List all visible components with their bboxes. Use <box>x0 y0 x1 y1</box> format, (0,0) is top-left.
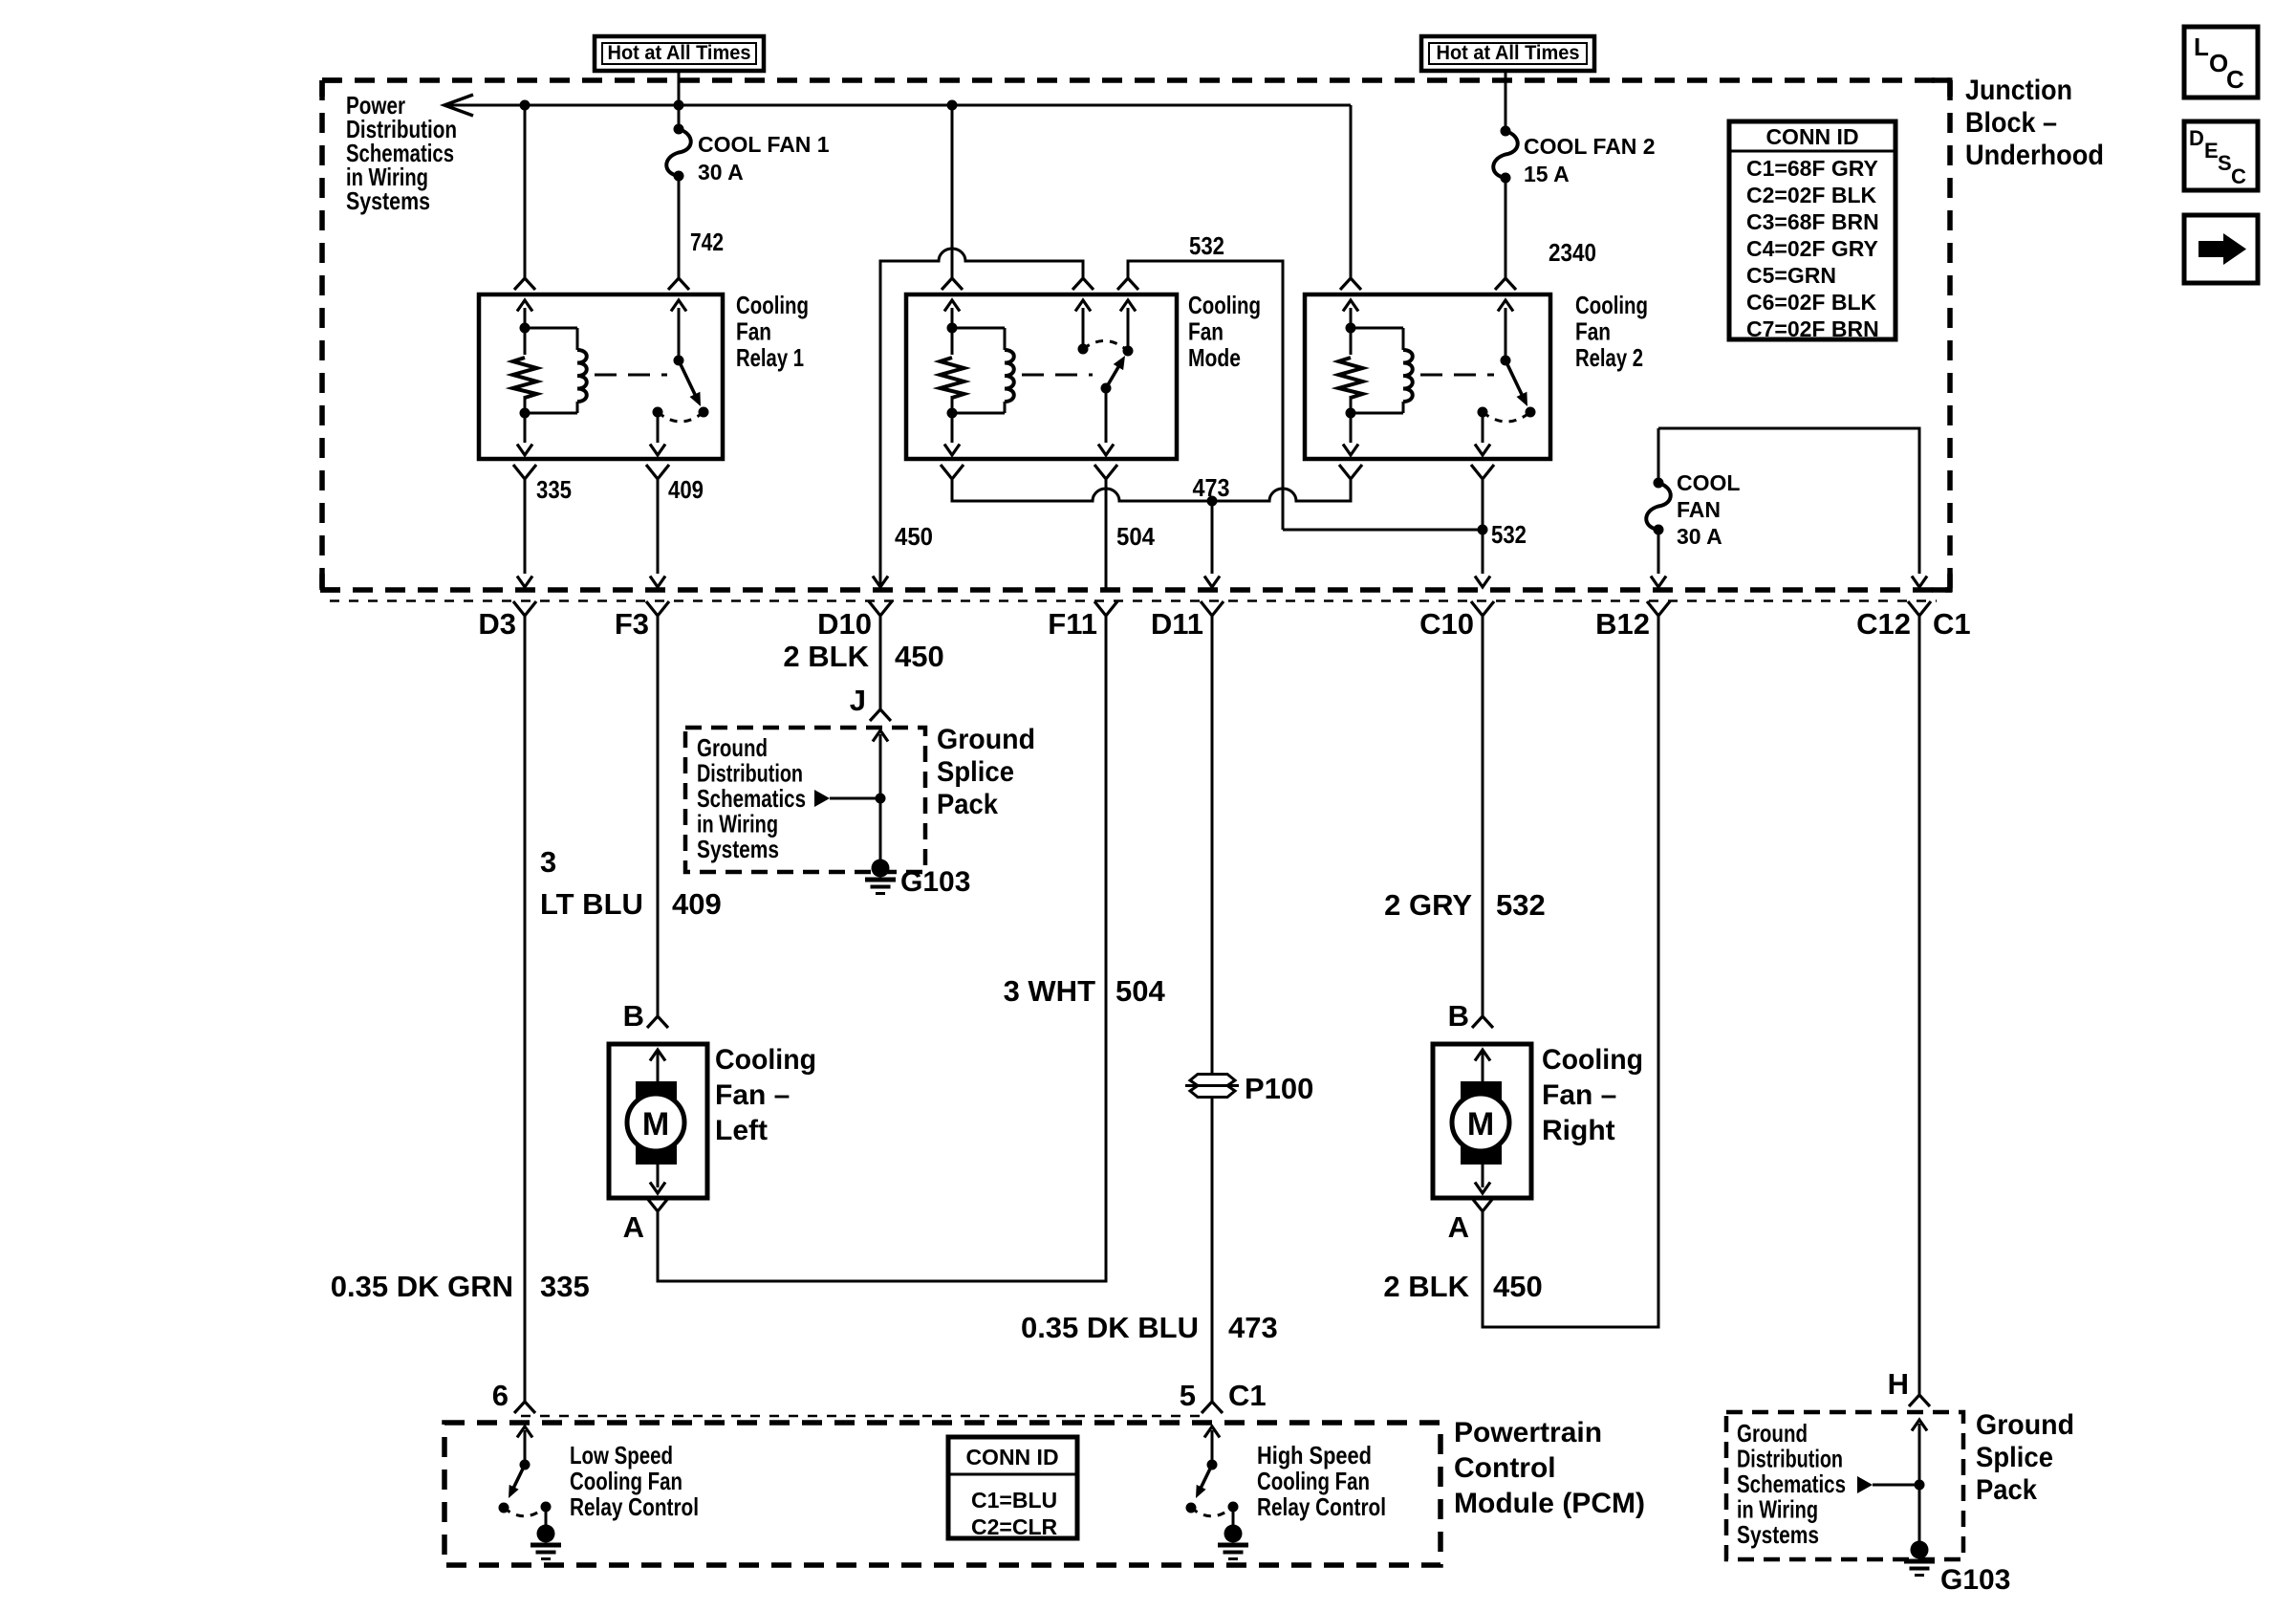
junction block dashed border (left) <box>319 80 325 590</box>
svg-text:2 GRY: 2 GRY <box>1384 888 1472 922</box>
fuse COOL FAN 30A <box>1646 483 1671 530</box>
wire rail to fan mode coil pin <box>951 105 954 278</box>
wire 409 relay 1 to F3 <box>657 480 660 574</box>
pin C1 PCM chevron <box>1202 1402 1223 1413</box>
pin B right fan chevron <box>1472 1016 1493 1028</box>
relay Cooling Fan Relay 2 box <box>1305 294 1550 459</box>
svg-text:E: E <box>2204 139 2219 163</box>
svg-text:6: 6 <box>492 1379 509 1412</box>
wire 473 D11 to PCM C1 <box>1211 616 1214 1402</box>
pin B12 connector chevron <box>1647 601 1670 616</box>
svg-text:COOL: COOL <box>1677 470 1740 495</box>
svg-text:5: 5 <box>1180 1379 1196 1412</box>
svg-text:473: 473 <box>1228 1311 1278 1344</box>
svg-text:Ground: Ground <box>937 724 1035 755</box>
svg-text:Systems: Systems <box>697 835 779 863</box>
table CONN ID junction block <box>1729 121 1895 339</box>
wire fuse top to corner <box>1657 428 1660 483</box>
relay Cooling Fan Mode box <box>906 294 1177 459</box>
svg-text:Underhood: Underhood <box>1965 140 2104 171</box>
fan mode coil pin chevron <box>942 278 963 290</box>
svg-text:C2=02F BLK: C2=02F BLK <box>1746 183 1877 207</box>
relay 2 coil output chevron <box>1339 465 1362 479</box>
svg-text:3: 3 <box>540 845 556 879</box>
svg-text:D10: D10 <box>817 607 872 641</box>
svg-text:LT BLU: LT BLU <box>540 887 643 921</box>
svg-text:Schematics: Schematics <box>697 784 806 813</box>
svg-text:D: D <box>2189 126 2204 150</box>
node rail junction at fan mode coil <box>947 100 958 111</box>
left fan motor <box>657 1050 660 1081</box>
svg-text:450: 450 <box>1493 1270 1543 1303</box>
connector P100 <box>1185 1084 1239 1087</box>
svg-text:Fan: Fan <box>1188 317 1224 346</box>
pin A left fan chevron <box>646 1197 669 1211</box>
pin F3 connector chevron <box>646 601 669 616</box>
svg-text:S: S <box>2218 151 2232 175</box>
wire relay 2 output to C10 <box>1482 480 1484 574</box>
svg-text:C10: C10 <box>1419 607 1474 641</box>
pin F11 connector chevron <box>1094 601 1117 616</box>
svg-text:F11: F11 <box>1048 607 1097 641</box>
junction block border corner patches <box>1932 77 1953 83</box>
svg-text:Relay 1: Relay 1 <box>736 343 804 372</box>
relay 1 switch output chevron <box>646 465 669 479</box>
relay 1 actuation dashed link <box>595 374 667 377</box>
svg-text:Systems: Systems <box>346 186 430 215</box>
fan mode NO pin chevron <box>1117 278 1138 290</box>
ground distribution pointer (upper) <box>814 790 830 807</box>
svg-text:Schematics: Schematics <box>1737 1469 1846 1498</box>
svg-text:Cooling Fan: Cooling Fan <box>1257 1467 1370 1495</box>
svg-text:C7=02F BRN: C7=02F BRN <box>1746 316 1879 341</box>
fan mode coil with resistor <box>951 308 954 328</box>
svg-text:Systems: Systems <box>1737 1520 1819 1549</box>
wire 2340 fuse to relay 2 <box>1505 178 1507 278</box>
ground G103 (lower) <box>1911 1541 1929 1559</box>
svg-text:FAN: FAN <box>1677 497 1721 522</box>
fuse COOL FAN 2 15A <box>1493 131 1518 178</box>
icon LOC box <box>2184 27 2258 98</box>
ground splice pack box (G103 upper) <box>685 728 925 872</box>
svg-text:H: H <box>1888 1367 1909 1401</box>
svg-text:409: 409 <box>672 887 722 921</box>
table CONN ID PCM <box>948 1437 1077 1538</box>
svg-text:532: 532 <box>1491 520 1527 549</box>
svg-text:Cooling: Cooling <box>1575 291 1648 319</box>
wire rail corner to relay 2 coil pin <box>1350 105 1353 278</box>
svg-text:L: L <box>2194 33 2209 61</box>
svg-text:Cooling Fan: Cooling Fan <box>570 1467 682 1495</box>
wire 504 F11 to left fan A <box>658 616 1106 1281</box>
icon arrow box <box>2184 215 2258 283</box>
svg-text:30 A: 30 A <box>1677 524 1722 549</box>
svg-text:Ground: Ground <box>1976 1409 2074 1441</box>
svg-text:G103: G103 <box>1940 1564 2010 1596</box>
svg-text:C1=BLU: C1=BLU <box>971 1488 1057 1513</box>
node Hot at All Times (left feed) <box>595 36 764 71</box>
svg-text:Splice: Splice <box>1976 1442 2053 1473</box>
svg-text:Low Speed: Low Speed <box>570 1441 673 1469</box>
wire fan mode common to F11 <box>1105 480 1108 590</box>
relay Cooling Fan Relay 1 box <box>479 294 723 459</box>
PCM dashed border <box>444 1423 1440 1565</box>
wire 450 right fan A to B12 <box>1483 616 1658 1327</box>
svg-text:C4=02F GRY: C4=02F GRY <box>1746 236 1878 261</box>
node splice junction (lower) <box>1915 1480 1925 1491</box>
icon DESC box <box>2184 121 2258 190</box>
relay 1 coil pin chevron <box>514 278 535 290</box>
svg-text:2 BLK: 2 BLK <box>1383 1270 1469 1303</box>
node 473 junction <box>1207 496 1218 507</box>
wire 473 coil grounds run <box>952 480 1351 501</box>
relay 2 switch <box>1505 308 1507 360</box>
svg-text:Junction: Junction <box>1965 75 2072 106</box>
svg-text:409: 409 <box>668 475 704 504</box>
svg-text:C5=GRN: C5=GRN <box>1746 263 1836 288</box>
svg-text:Distribution: Distribution <box>1737 1445 1843 1473</box>
high speed relay control switch <box>1211 1430 1214 1465</box>
svg-text:Relay Control: Relay Control <box>570 1492 699 1521</box>
svg-text:Control: Control <box>1454 1452 1556 1484</box>
svg-text:Fan –: Fan – <box>1542 1079 1616 1111</box>
svg-text:504: 504 <box>1116 974 1165 1008</box>
svg-text:Hot at All Times: Hot at All Times <box>608 42 751 64</box>
svg-text:Relay 2: Relay 2 <box>1575 343 1643 372</box>
wire fuse to B12 <box>1657 530 1660 574</box>
svg-text:2340: 2340 <box>1549 238 1596 267</box>
svg-text:742: 742 <box>690 228 724 256</box>
svg-text:Splice: Splice <box>937 756 1014 788</box>
svg-text:D3: D3 <box>478 607 516 641</box>
relay 2 actuation dashed link <box>1420 374 1494 377</box>
wire B12 fuse top run to C12 <box>1658 428 1919 574</box>
relay 2 coil with resistor <box>1350 308 1353 328</box>
svg-text:3 WHT: 3 WHT <box>1004 974 1096 1008</box>
svg-text:C1: C1 <box>1228 1379 1267 1412</box>
svg-text:Fan: Fan <box>1575 317 1611 346</box>
svg-text:G103: G103 <box>900 866 970 898</box>
svg-text:Cooling: Cooling <box>1542 1044 1643 1076</box>
wire splice pack stem (upper) <box>879 734 882 868</box>
pin 6 chevron <box>514 1402 535 1413</box>
PCM connector line (thin dashed) <box>521 1415 1204 1418</box>
svg-text:B: B <box>623 999 644 1033</box>
junction block dashed border (top) <box>322 77 1950 83</box>
ground splice pack box (G103 lower) <box>1726 1412 1963 1559</box>
fan mode NC pin chevron <box>1072 278 1094 290</box>
svg-text:C6=02F BLK: C6=02F BLK <box>1746 290 1877 315</box>
svg-text:C2=CLR: C2=CLR <box>971 1514 1057 1539</box>
svg-text:0.35 DK BLU: 0.35 DK BLU <box>1021 1311 1199 1344</box>
svg-text:B: B <box>1448 999 1469 1033</box>
wire 335 D3 to PCM pin 6 <box>524 616 527 1402</box>
relay 2 switch output chevron <box>1471 465 1494 479</box>
wire rail to relay 1 coil pin <box>524 105 527 278</box>
svg-text:J: J <box>850 684 866 717</box>
svg-text:C1: C1 <box>1933 607 1971 641</box>
relay 1 coil output chevron <box>513 465 536 479</box>
node rail junction at relay 1 coil <box>520 100 531 111</box>
wire power rail to Power Distribution Schematics <box>444 104 1351 107</box>
relay 1 switch pin chevron <box>668 278 689 290</box>
low speed relay control switch <box>524 1430 527 1465</box>
svg-text:COOL FAN 2: COOL FAN 2 <box>1524 134 1656 159</box>
wire 450 top run D10 to fan mode NC contact <box>880 249 1083 590</box>
svg-text:D11: D11 <box>1151 607 1203 641</box>
svg-text:P100: P100 <box>1245 1072 1313 1105</box>
svg-text:B12: B12 <box>1595 607 1650 641</box>
svg-text:Ground: Ground <box>1737 1419 1808 1448</box>
svg-text:C1=68F GRY: C1=68F GRY <box>1746 156 1878 181</box>
node Hot at All Times (right feed) <box>1421 36 1594 71</box>
svg-text:Cooling: Cooling <box>1188 291 1261 319</box>
svg-text:450: 450 <box>895 640 944 673</box>
fan mode switch <box>1082 308 1085 349</box>
svg-text:A: A <box>623 1210 644 1244</box>
svg-text:Fan –: Fan – <box>715 1079 790 1111</box>
svg-text:C: C <box>2226 65 2244 94</box>
relay 1 switch <box>678 308 681 360</box>
pin D10 connector chevron <box>869 601 892 616</box>
pin D3 connector chevron <box>513 601 536 616</box>
svg-text:M: M <box>1467 1106 1494 1143</box>
wire splice pack stem (lower) <box>1918 1424 1921 1550</box>
svg-text:0.35 DK GRN: 0.35 DK GRN <box>331 1270 513 1303</box>
svg-text:532: 532 <box>1496 888 1546 922</box>
wire Hot1 box to rail <box>678 71 681 129</box>
pin A right fan chevron <box>1471 1197 1494 1211</box>
svg-text:Pack: Pack <box>1976 1474 2037 1506</box>
wire 473 to D11 <box>1211 501 1214 574</box>
fan mode actuation dashed link <box>1022 374 1093 377</box>
ground distribution pointer (lower) <box>1857 1476 1873 1493</box>
svg-text:CONN ID: CONN ID <box>1765 124 1858 149</box>
wire 450 D10 to splice pack <box>879 616 882 709</box>
pin C12 connector chevron <box>1908 601 1931 616</box>
svg-text:in Wiring: in Wiring <box>697 810 778 838</box>
wire 532 branch to C10 <box>1283 529 1483 532</box>
svg-text:in Wiring: in Wiring <box>1737 1495 1818 1524</box>
fan mode switch output chevron <box>1094 465 1117 479</box>
svg-text:Left: Left <box>715 1115 768 1146</box>
svg-text:Cooling: Cooling <box>736 291 809 319</box>
node 532 junction <box>1478 525 1488 535</box>
relay 1 coil with resistor <box>524 308 527 328</box>
svg-text:A: A <box>1448 1210 1469 1244</box>
junction block connector line (thin dashed) <box>330 599 1937 602</box>
motor Cooling Fan Left box <box>609 1044 707 1198</box>
svg-text:532: 532 <box>1189 231 1224 260</box>
svg-text:15 A: 15 A <box>1524 162 1570 186</box>
wire Hot2 box to fuse <box>1505 71 1507 131</box>
wire 742 fuse to relay 1 <box>678 176 681 278</box>
svg-text:Cooling: Cooling <box>715 1044 816 1076</box>
wire 532 top run fan mode to relay 2 branch <box>1128 261 1283 530</box>
svg-text:30 A: 30 A <box>698 160 744 185</box>
svg-text:F3: F3 <box>615 607 649 641</box>
wire C12 to splice pack H <box>1918 616 1921 1395</box>
svg-text:Distribution: Distribution <box>697 759 803 788</box>
pin B left fan chevron <box>647 1016 668 1028</box>
svg-text:CONN ID: CONN ID <box>965 1445 1058 1469</box>
relay 2 switch pin chevron <box>1495 278 1516 290</box>
svg-text:2 BLK: 2 BLK <box>783 640 869 673</box>
svg-text:Module (PCM): Module (PCM) <box>1454 1488 1645 1519</box>
svg-text:Relay Control: Relay Control <box>1257 1492 1386 1521</box>
ground G103 (upper) <box>872 860 890 878</box>
pin J chevron <box>870 709 891 721</box>
svg-text:Block –: Block – <box>1965 107 2057 139</box>
wire 409 F3 to left fan B <box>657 616 660 1016</box>
svg-text:Hot at All Times: Hot at All Times <box>1437 42 1580 64</box>
svg-text:M: M <box>642 1106 669 1143</box>
fan mode coil output chevron <box>941 465 964 479</box>
node splice junction (upper) <box>876 794 886 804</box>
svg-text:450: 450 <box>895 522 933 551</box>
relay 2 coil pin chevron <box>1340 278 1361 290</box>
svg-text:C3=68F BRN: C3=68F BRN <box>1746 209 1879 234</box>
svg-text:Powertrain: Powertrain <box>1454 1417 1602 1448</box>
motor Cooling Fan Right box <box>1433 1044 1531 1198</box>
svg-text:High Speed: High Speed <box>1257 1441 1372 1469</box>
svg-text:Mode: Mode <box>1188 343 1241 372</box>
svg-text:Pack: Pack <box>937 789 998 820</box>
junction block dashed border (right) <box>1947 80 1953 592</box>
svg-text:504: 504 <box>1116 522 1155 551</box>
node rail junction at fuse COOL FAN 1 <box>674 100 684 111</box>
svg-text:473: 473 <box>1193 473 1230 502</box>
wire 335 relay 1 to D3 <box>524 480 527 574</box>
wire 532 C10 to right fan B <box>1482 616 1484 1016</box>
pin H chevron <box>1909 1395 1930 1406</box>
svg-text:C: C <box>2231 164 2246 188</box>
right fan motor <box>1482 1050 1484 1081</box>
svg-text:Ground: Ground <box>697 733 768 762</box>
junction block dashed border (bottom) <box>320 587 1952 593</box>
svg-text:Fan: Fan <box>736 317 771 346</box>
svg-text:Right: Right <box>1542 1115 1615 1146</box>
pin C10 connector chevron <box>1471 601 1494 616</box>
svg-text:335: 335 <box>536 475 572 504</box>
fuse COOL FAN 1 30A <box>666 129 691 176</box>
pin D11 connector chevron <box>1201 601 1224 616</box>
svg-text:C12: C12 <box>1856 607 1911 641</box>
svg-text:335: 335 <box>540 1270 590 1303</box>
svg-text:COOL FAN 1: COOL FAN 1 <box>698 132 830 157</box>
